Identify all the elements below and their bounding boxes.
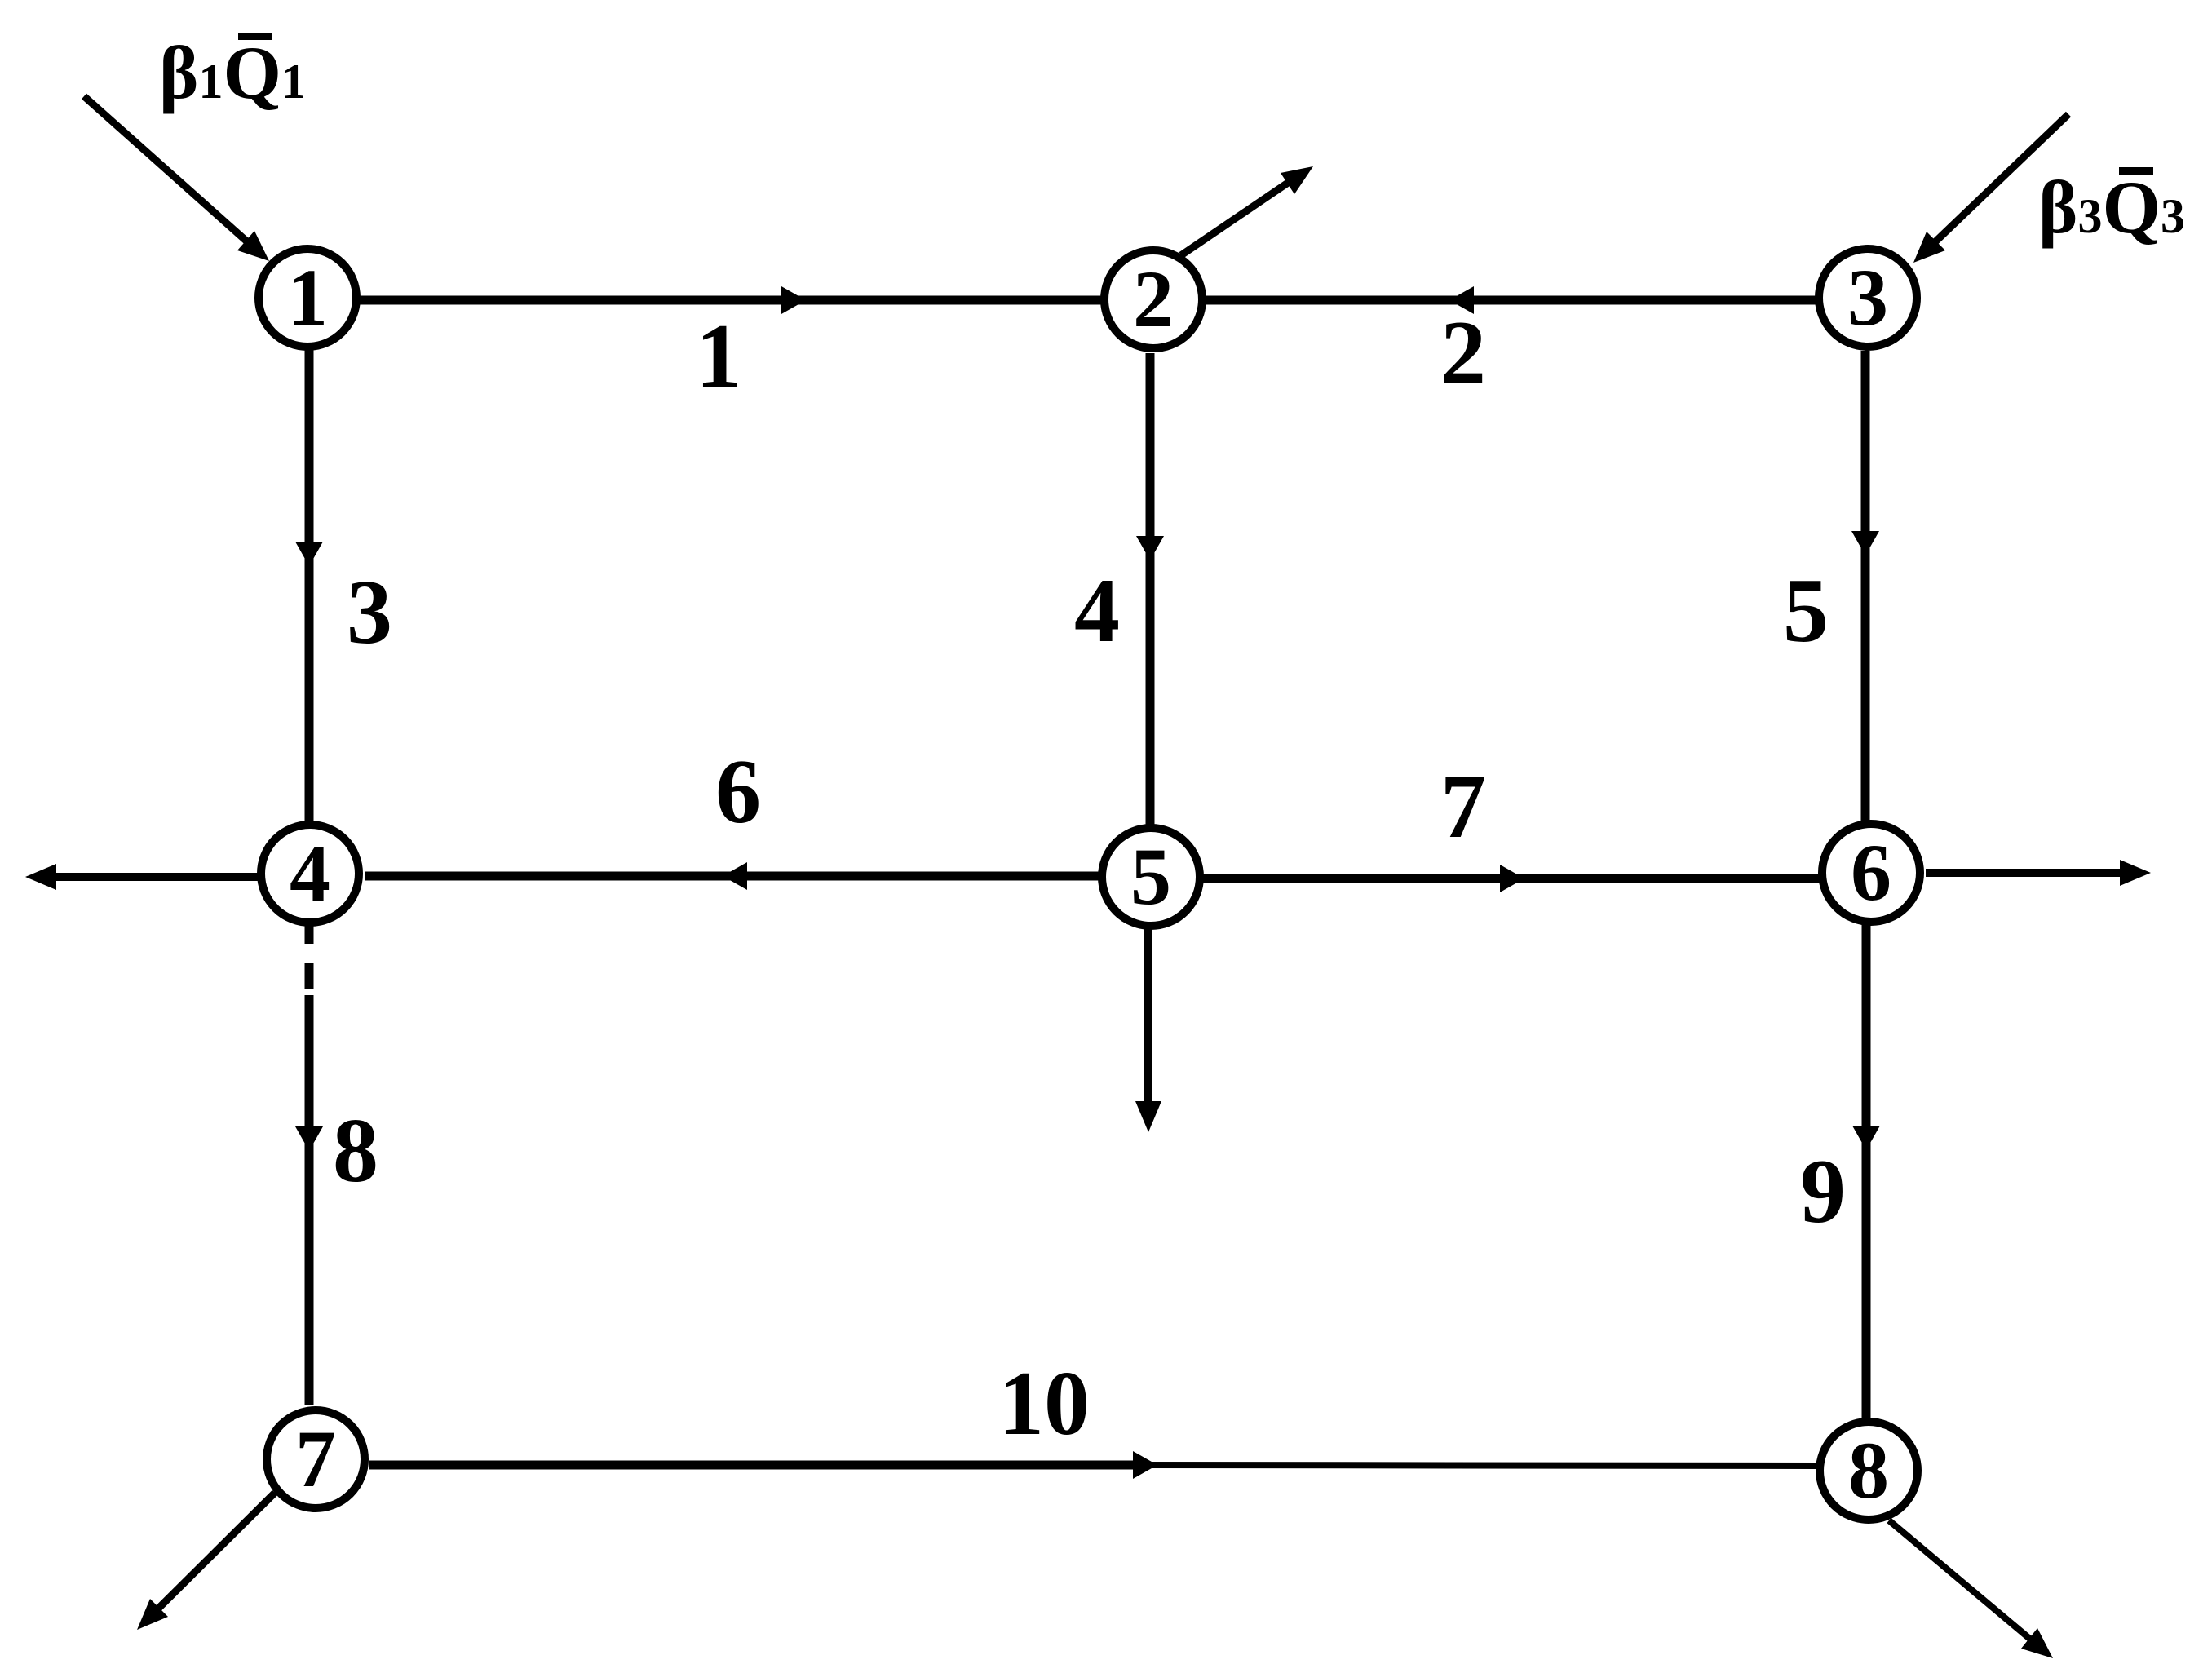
- wire edge 7 (node5 to node6): [1197, 874, 1820, 883]
- node 1: [259, 249, 356, 347]
- svg-text:4: 4: [1074, 560, 1120, 662]
- svg-text:2: 2: [1440, 303, 1486, 404]
- node 4: [261, 825, 359, 923]
- arrowhead edge 2: [1449, 286, 1474, 314]
- outflow arrow from node 5 (down): [1144, 927, 1152, 1104]
- svg-text:7: 7: [295, 1414, 336, 1504]
- svg-text:7: 7: [1440, 756, 1486, 857]
- node 5: [1102, 828, 1200, 926]
- outflow arrow from node 6 (right): [1926, 869, 2122, 877]
- wire edge 8 (node4 to node7, dash-dot at top): [305, 921, 314, 944]
- wire edge 3 (node1 to node4): [305, 350, 314, 821]
- svg-text:1: 1: [287, 252, 328, 343]
- inflow arrow into node 3: [1932, 114, 2068, 245]
- svg-text:6: 6: [715, 741, 761, 843]
- outflow arrow from node 8 (down-right): [1889, 1520, 2032, 1640]
- svg-text:8: 8: [1848, 1425, 1889, 1516]
- svg-text:3: 3: [347, 562, 392, 663]
- arrowhead edge 1: [781, 286, 806, 314]
- node 2: [1104, 250, 1202, 348]
- node 8: [1820, 1422, 1918, 1520]
- svg-text:9: 9: [1800, 1141, 1846, 1242]
- arrowhead edge 8: [295, 1126, 323, 1151]
- arrowhead edge 7: [1500, 865, 1524, 892]
- wire edge 9 (node6 to node8): [1862, 923, 1871, 1420]
- wire edge 5 (node3 to node6): [1861, 351, 1870, 821]
- arrowhead edge 10: [1133, 1451, 1157, 1479]
- svg-text:5: 5: [1783, 560, 1829, 662]
- svg-text:3: 3: [1847, 252, 1888, 343]
- svg-text:5: 5: [1130, 831, 1171, 922]
- svg-text:6: 6: [1851, 827, 1891, 918]
- arrowhead edge 6: [723, 862, 747, 890]
- node 7: [267, 1410, 365, 1508]
- outflow arrow from node 7 (down-left): [157, 1493, 275, 1610]
- arrowhead edge 9: [1852, 1126, 1880, 1150]
- svg-text:10: 10: [998, 1353, 1090, 1454]
- wire edge 2 (node3 to node2): [1206, 296, 1816, 305]
- outflow arrow from node 4 (left): [54, 873, 259, 881]
- svg-text:1: 1: [696, 306, 741, 407]
- svg-text:2: 2: [1133, 254, 1174, 344]
- wire edge 4 (node2 to node5): [1146, 353, 1155, 825]
- wire edge 6 (node5 to node4): [365, 872, 1105, 881]
- inflow arrow into node 1: [84, 96, 249, 243]
- arrowhead edge 4: [1136, 536, 1164, 560]
- node 6: [1822, 824, 1920, 922]
- svg-text:4: 4: [290, 828, 330, 918]
- wire edge 10 (node7 to node8): [369, 1461, 1135, 1470]
- node 3: [1819, 249, 1917, 347]
- arrowhead edge 3: [295, 542, 323, 566]
- outflow arrow from node 2: [1181, 181, 1290, 255]
- wire edge 1 (node1 to node2): [360, 296, 1101, 305]
- arrowhead edge 5: [1851, 531, 1879, 555]
- svg-text:8: 8: [333, 1100, 378, 1202]
